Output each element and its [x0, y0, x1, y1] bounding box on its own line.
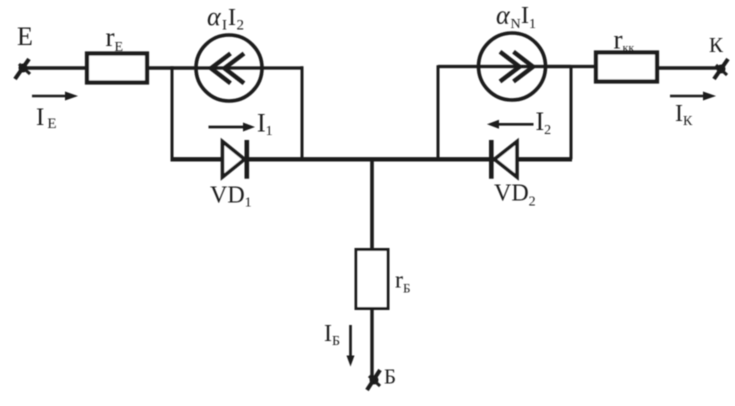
svg-text:I: I	[521, 3, 529, 29]
svg-text:2: 2	[237, 18, 245, 34]
resistor rE	[87, 54, 147, 83]
svg-text:N: N	[511, 17, 521, 32]
current source chevrons >>	[500, 52, 520, 82]
arrow IB	[347, 325, 355, 367]
current source chevrons <<	[211, 54, 231, 84]
current source U1 (alpha_I I2) circle	[196, 35, 262, 101]
wire E terminal to resistor rE	[24, 66, 86, 70]
wire through current source	[196, 66, 302, 69]
wire: current source to resistor rkk	[545, 65, 596, 68]
terminal B	[367, 370, 380, 390]
svg-text:E: E	[17, 22, 33, 51]
resistor rkk	[596, 53, 657, 82]
wire: right loop right vertical	[570, 65, 573, 159]
diode VD2	[491, 140, 517, 179]
wire: rB to terminal B	[370, 308, 373, 378]
svg-text:I: I	[222, 18, 227, 34]
arrow IE	[32, 92, 78, 101]
wire: rkk to terminal K	[657, 66, 721, 69]
wire: left loop right vertical	[301, 66, 304, 159]
wire: right loop left vertical	[437, 65, 440, 159]
wire resistor rE to current source	[147, 66, 197, 70]
current source U2 (alpha_N I1) circle	[479, 33, 546, 100]
svg-text:α: α	[207, 2, 222, 31]
wire: center vertical to rB	[370, 159, 374, 251]
arrow I2	[487, 120, 534, 129]
svg-text:1: 1	[529, 17, 536, 32]
wire: left loop left vertical	[171, 66, 174, 159]
terminal E	[15, 59, 30, 79]
wire: diode row (left loop bottom to center junction to right loop bottom)	[171, 157, 573, 161]
svg-text:I: I	[228, 5, 236, 31]
arrow I1	[209, 123, 256, 132]
svg-text:К: К	[709, 33, 724, 57]
terminal K	[714, 59, 728, 79]
svg-text:Б: Б	[384, 365, 396, 389]
resistor rB	[356, 250, 388, 309]
wire through current source	[438, 65, 571, 68]
diode VD1	[223, 140, 247, 179]
arrow IK	[670, 92, 716, 101]
svg-text:α: α	[496, 1, 511, 30]
